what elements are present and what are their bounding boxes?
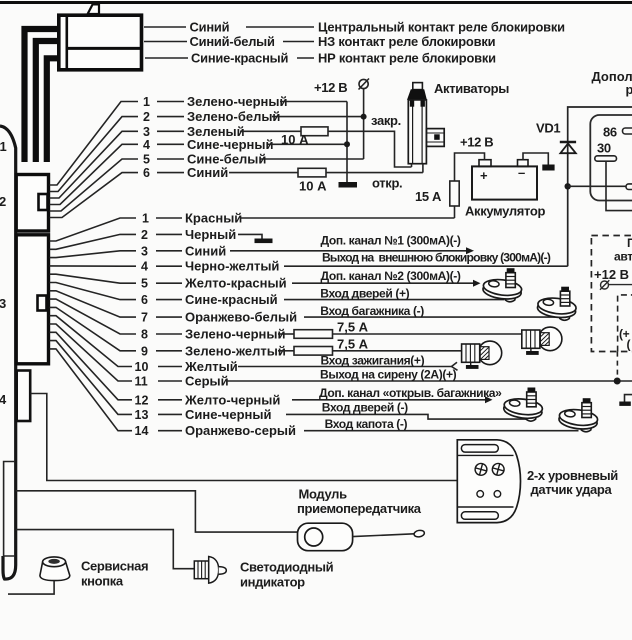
wire xyxy=(283,41,314,43)
svg-text:закр.: закр. xyxy=(371,113,401,128)
svg-text:Вход дверей (+): Вход дверей (+) xyxy=(320,287,409,301)
wire to relay 87 contact xyxy=(568,185,626,187)
LED lens xyxy=(209,557,219,584)
lamp L2 xyxy=(522,327,562,355)
service button top xyxy=(43,557,66,567)
wire 3 dash xyxy=(157,130,184,132)
svg-text:Модуль: Модуль xyxy=(299,487,348,502)
wire row2 to +12 bus xyxy=(272,116,364,118)
svg-text:10 А: 10 А xyxy=(299,179,327,194)
wire service button to unit xyxy=(8,581,54,595)
junction dot row2 xyxy=(361,114,367,120)
battery case xyxy=(472,166,537,199)
svg-text:Светодиодный: Светодиодный xyxy=(240,560,334,575)
arrow row12 xyxy=(485,396,493,403)
module button circle xyxy=(305,528,323,546)
fuse F1 10A xyxy=(301,127,328,136)
svg-text:Красный: Красный xyxy=(185,211,242,226)
transceiver module body xyxy=(298,523,353,551)
wire 6 dash xyxy=(157,172,184,174)
svg-text:Синие-красный: Синие-красный xyxy=(191,51,288,66)
svg-text:Желто-черный: Желто-черный xyxy=(184,392,280,407)
svg-text:+12 В: +12 В xyxy=(460,135,493,150)
battery terminal plus xyxy=(479,160,491,167)
svg-text:3: 3 xyxy=(143,125,150,139)
svg-text:авт: авт xyxy=(614,250,632,264)
svg-text:Вход багажника (-): Вход багажника (-) xyxy=(320,304,424,318)
wire fan main pin7 xyxy=(50,291,137,317)
dash row13 xyxy=(158,413,182,415)
wire row5 to +12 bus xyxy=(260,158,364,160)
svg-text:3: 3 xyxy=(0,296,6,311)
relay K1 box xyxy=(590,115,632,201)
LED cylinder xyxy=(194,561,208,579)
junction dot row4 xyxy=(344,141,350,147)
wire bottom right ground xyxy=(625,395,632,402)
thick wire middle xyxy=(36,41,59,162)
service button inner xyxy=(48,559,60,564)
wire 5 dash xyxy=(157,158,184,160)
svg-text:Синий: Синий xyxy=(185,243,226,258)
svg-text:13: 13 xyxy=(135,408,149,422)
diode VD1 xyxy=(560,142,576,153)
fuse F3 15A xyxy=(450,181,459,206)
svg-text:+12 В: +12 В xyxy=(594,267,629,282)
wire fan pin3 xyxy=(50,131,139,198)
svg-text:приемопередатчика: приемопередатчика xyxy=(297,501,422,516)
svg-text:индикатор: индикатор xyxy=(240,575,305,590)
svg-text:1: 1 xyxy=(143,95,150,109)
+12 bus vertical xyxy=(363,89,365,159)
wire row13 door minus xyxy=(286,414,527,419)
dash row11 xyxy=(158,380,182,382)
svg-text:Активаторы: Активаторы xyxy=(434,81,509,96)
housing divider xyxy=(67,47,142,50)
svg-text:7: 7 xyxy=(141,311,148,325)
trunk switch SW2 xyxy=(537,287,577,321)
svg-text:Выход на внешнюю блокировку (: Выход на внешнюю блокировку (300мА)(-) xyxy=(322,251,551,265)
wire row2 black to ground xyxy=(238,234,262,238)
terminal circle ignition xyxy=(600,280,632,290)
wire fan main pin12 xyxy=(50,332,133,400)
wire row9 to lamp1 xyxy=(333,350,462,352)
wire row6 door input plus xyxy=(284,299,504,301)
svg-text:Сине-черный: Сине-черный xyxy=(187,137,273,152)
svg-text:4: 4 xyxy=(141,260,148,274)
svg-text:2: 2 xyxy=(0,194,6,209)
sensor hole 1 xyxy=(477,491,484,498)
dash row12 xyxy=(158,399,182,401)
svg-text:2: 2 xyxy=(141,228,148,242)
actuator body xyxy=(408,100,426,164)
wire fan main pin10 xyxy=(50,316,133,367)
dashed wire to siren line xyxy=(616,352,618,378)
wire fan pin4 xyxy=(50,144,139,204)
ground symbol bar xyxy=(339,182,358,188)
photo top border xyxy=(0,1,632,4)
junction dot diode-relay xyxy=(565,183,571,189)
sensor slot bottom xyxy=(461,512,498,520)
actuator arm contact xyxy=(434,134,440,140)
svg-text:Желто-красный: Желто-красный xyxy=(184,276,287,291)
wire battery plus to fuse xyxy=(455,153,485,181)
wire fan pin6 xyxy=(50,173,139,218)
svg-text:6: 6 xyxy=(141,293,148,307)
wire xyxy=(246,26,314,28)
svg-text:Оранжево-серый: Оранжево-серый xyxy=(185,423,296,438)
svg-text:–: – xyxy=(518,165,525,180)
svg-text:7,5 А: 7,5 А xyxy=(337,336,369,351)
svg-text:Сине-красный: Сине-красный xyxy=(185,292,278,307)
svg-text:15 А: 15 А xyxy=(415,189,442,204)
wire row11 siren output xyxy=(226,380,632,382)
+12V terminal circle xyxy=(359,79,370,90)
housing tab xyxy=(88,4,99,14)
sensor hole 2 xyxy=(494,491,501,498)
wire row14 hood input xyxy=(304,430,579,432)
wire fan main pin5 xyxy=(50,274,137,283)
wire row8 to lamp2 xyxy=(333,333,522,335)
wire blue lead xyxy=(144,26,186,28)
wire row6 to fuse xyxy=(229,172,298,174)
battery terminal minus xyxy=(518,160,529,167)
svg-text:датчик удара: датчик удара xyxy=(531,482,613,497)
svg-text:Зелено-черный: Зелено-черный xyxy=(187,94,287,109)
hood switch SW4 xyxy=(558,398,598,432)
wire blue-white lead xyxy=(144,41,187,43)
svg-text:10 А: 10 А xyxy=(281,132,309,147)
inner dashed box xyxy=(618,295,632,352)
svg-text:Вход капота (-): Вход капота (-) xyxy=(325,417,408,431)
alarm unit body outline xyxy=(0,126,16,579)
svg-text:8: 8 xyxy=(141,328,148,342)
dash row6 xyxy=(156,299,182,301)
svg-text:+: + xyxy=(480,168,488,183)
svg-text:Черно-желтый: Черно-желтый xyxy=(185,259,279,274)
svg-text:Центральный контакт реле блоки: Центральный контакт реле блокировки xyxy=(318,20,565,35)
svg-text:12: 12 xyxy=(135,393,149,407)
svg-text:кнопка: кнопка xyxy=(81,574,124,589)
svg-text:30: 30 xyxy=(597,141,611,156)
svg-text:Вход зажигания(+): Вход зажигания(+) xyxy=(321,353,425,367)
dash row8 xyxy=(156,333,182,335)
lamp L1 xyxy=(462,341,502,369)
wire unit to LED xyxy=(16,530,195,569)
door switch SW1 xyxy=(482,268,522,302)
svg-text:3: 3 xyxy=(141,244,148,258)
connector 4 xyxy=(17,371,31,422)
fuse 7.5A row8 xyxy=(294,330,333,339)
svg-text:4: 4 xyxy=(143,138,150,152)
ground symbol row2 xyxy=(255,239,273,244)
actuator body inner walls xyxy=(412,100,414,164)
housing key column xyxy=(66,15,69,70)
ground symbol battery xyxy=(542,165,554,171)
svg-text:14: 14 xyxy=(135,424,149,438)
service button cap xyxy=(40,562,70,581)
svg-text:Доп. канал №2 (300мА)(-): Доп. канал №2 (300мА)(-) xyxy=(321,269,461,283)
svg-text:Сервисная: Сервисная xyxy=(81,559,148,574)
door switch SW3 xyxy=(503,388,543,422)
dashed box car ignition xyxy=(591,236,632,352)
svg-text:1: 1 xyxy=(0,139,7,154)
svg-text:Синий-белый: Синий-белый xyxy=(190,34,275,49)
wire battery minus to ground xyxy=(523,153,548,165)
svg-text:9: 9 xyxy=(141,344,148,358)
wire fan pin2 xyxy=(50,117,139,192)
svg-text:86: 86 xyxy=(603,125,617,140)
wire fan pin5 xyxy=(50,159,139,211)
wire row1 red to fuse15 xyxy=(240,217,455,219)
wire fan main pin13 xyxy=(50,341,133,415)
relay contact 87 lug xyxy=(626,184,632,190)
svg-text:Выход на сирену (2А)(+): Выход на сирену (2А)(+) xyxy=(320,368,457,382)
svg-text:7,5 А: 7,5 А xyxy=(337,320,369,335)
wire row4 ext blocking xyxy=(284,265,568,267)
wire fuse to red lead xyxy=(454,206,456,218)
relay connector housing xyxy=(59,15,142,70)
svg-text:ре: ре xyxy=(626,82,632,97)
wire relay 30 down-right xyxy=(606,161,632,210)
wire fan main pin11 xyxy=(50,324,133,381)
dash row10 xyxy=(158,366,182,368)
dash row3 xyxy=(156,250,182,252)
sensor screw 1 xyxy=(474,462,488,476)
LED tip xyxy=(219,567,227,575)
dash row9 xyxy=(156,350,182,352)
fuse 7.5A row9 xyxy=(294,347,333,356)
arrow row3 xyxy=(466,247,474,254)
actuator lead close xyxy=(411,164,413,167)
wire row3 to fuse xyxy=(240,130,301,132)
wire 1 dash xyxy=(157,101,184,103)
svg-text:НЗ контакт реле блокировки: НЗ контакт реле блокировки xyxy=(318,34,496,49)
svg-text:2: 2 xyxy=(143,110,150,124)
svg-text:Доп. канал «открыв. багажника»: Доп. канал «открыв. багажника» xyxy=(319,386,502,400)
svg-text:Серый: Серый xyxy=(185,374,229,389)
thick wire inner xyxy=(47,58,59,162)
actuator cap xyxy=(407,89,427,100)
dash row7 xyxy=(156,316,182,318)
svg-text:Сине-черный: Сине-черный xyxy=(185,407,271,422)
wire fan main pin1 xyxy=(50,218,137,241)
svg-text:Желтый: Желтый xyxy=(184,359,238,374)
svg-text:2-х уровневый: 2-х уровневый xyxy=(527,468,618,483)
antenna tip xyxy=(414,530,425,538)
svg-text:VD1: VD1 xyxy=(536,121,560,136)
wire fan main pin6 xyxy=(50,283,137,300)
wire blue-red lead xyxy=(145,57,188,59)
dash row4 xyxy=(156,265,182,267)
actuator contact squares xyxy=(410,101,414,107)
dash row14 xyxy=(158,430,182,432)
connector 3 xyxy=(16,235,48,364)
svg-text:Доп. канал №1 (300мА)(-): Доп. канал №1 (300мА)(-) xyxy=(321,234,461,248)
svg-text:Черный: Черный xyxy=(185,227,236,242)
wire lock open xyxy=(326,172,423,174)
svg-text:Синий: Синий xyxy=(190,20,230,35)
fuse F2 10A xyxy=(298,168,326,177)
wire lock close xyxy=(328,131,412,167)
dash row2 xyxy=(156,233,182,235)
svg-text:10: 10 xyxy=(135,360,149,374)
svg-text:Оранжево-белый: Оранжево-белый xyxy=(185,310,297,325)
wire fan main pin3 xyxy=(50,251,137,258)
thick wire outer xyxy=(25,29,59,162)
wire row5 aux channel 2 xyxy=(292,282,474,284)
svg-text:5: 5 xyxy=(143,153,150,167)
wire row9 lead xyxy=(278,350,294,352)
svg-text:6: 6 xyxy=(143,166,150,180)
sensor divider bottom xyxy=(457,506,513,508)
actuator arm xyxy=(426,129,444,147)
wire connector4 to shock sensor xyxy=(31,394,458,481)
wire fan main pin4 xyxy=(50,265,137,267)
svg-text:Зелено-желтый: Зелено-желтый xyxy=(185,343,286,358)
arrow open row10 xyxy=(452,362,458,370)
svg-text:11: 11 xyxy=(135,375,148,389)
module antenna wire xyxy=(353,534,414,537)
svg-text:П: П xyxy=(627,236,632,250)
wire row12 trunk release xyxy=(292,399,486,401)
wire diode branch top xyxy=(568,107,632,266)
junction dot siren line xyxy=(614,378,621,385)
wire xyxy=(297,57,314,59)
shock sensor body xyxy=(457,440,520,523)
wire fan main pin8 xyxy=(50,299,137,334)
wire row1 to ground bus xyxy=(280,101,347,103)
wire row10 ignition input xyxy=(238,366,452,368)
svg-text:Вход дверей (-): Вход дверей (-) xyxy=(322,401,408,415)
relay pin 86 lug xyxy=(623,128,632,134)
wire fan main pin14 xyxy=(50,349,133,431)
wire fan main pin2 xyxy=(50,234,137,249)
wire row8 lead xyxy=(278,333,294,335)
wire 4 dash xyxy=(157,143,184,145)
wire fan pin1 xyxy=(50,102,139,186)
sensor slot top xyxy=(461,445,498,453)
dash row1 xyxy=(156,217,182,219)
sensor screw 2 xyxy=(491,462,505,476)
wire row7 trunk input xyxy=(304,316,557,318)
ground bus vertical xyxy=(346,102,348,183)
svg-text:Зелено-черный: Зелено-черный xyxy=(185,327,285,342)
arrow row5 xyxy=(473,280,481,287)
svg-text:1: 1 xyxy=(142,212,149,226)
svg-text:Аккумулятор: Аккумулятор xyxy=(465,204,545,219)
wire row3 aux channel 1 xyxy=(230,250,467,252)
actuator lead open xyxy=(422,164,424,173)
dash row5 xyxy=(156,282,182,284)
wire row4 to ground bus xyxy=(268,143,347,145)
svg-text:Зелено-белый: Зелено-белый xyxy=(187,109,280,124)
svg-text:откр.: откр. xyxy=(372,176,402,191)
relay pin 30 lug xyxy=(595,156,617,161)
connector 3 latch xyxy=(38,296,47,311)
wire fan main pin9 xyxy=(50,307,137,350)
connector 2 latch xyxy=(39,194,48,210)
wire unit to transceiver module xyxy=(16,491,298,532)
svg-text:НР контакт реле блокировки: НР контакт реле блокировки xyxy=(318,51,496,66)
svg-text:+12 В: +12 В xyxy=(314,80,347,95)
sensor divider top xyxy=(457,454,513,456)
ground symbol right xyxy=(619,402,631,406)
unit side compartment xyxy=(4,462,15,557)
svg-text:Синий: Синий xyxy=(187,165,228,180)
svg-text:5: 5 xyxy=(141,277,148,291)
connector 2 xyxy=(16,175,48,232)
wire 2 dash xyxy=(157,116,184,118)
actuator stem xyxy=(413,83,423,90)
